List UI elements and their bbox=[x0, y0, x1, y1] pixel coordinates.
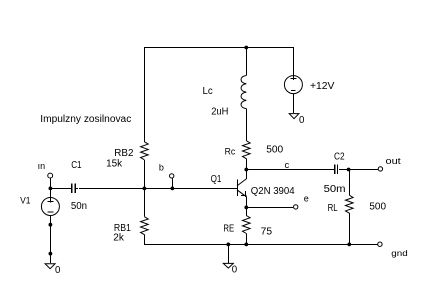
svg-text:e: e bbox=[304, 193, 309, 203]
svg-text:Q2N 3904: Q2N 3904 bbox=[251, 186, 295, 197]
svg-text:c: c bbox=[285, 160, 290, 171]
svg-text:500: 500 bbox=[266, 145, 284, 156]
svg-text:+12V: +12V bbox=[310, 81, 335, 92]
svg-text:0: 0 bbox=[55, 265, 61, 276]
svg-text:0: 0 bbox=[232, 265, 238, 276]
svg-text:Q1: Q1 bbox=[211, 174, 222, 185]
svg-text:Lc: Lc bbox=[203, 86, 213, 97]
svg-text:2k: 2k bbox=[113, 233, 124, 244]
svg-text:ın: ın bbox=[38, 161, 46, 171]
svg-text:RL: RL bbox=[328, 203, 338, 214]
svg-text:RE: RE bbox=[223, 223, 234, 234]
svg-text:C2: C2 bbox=[334, 152, 345, 163]
svg-text:75: 75 bbox=[261, 226, 272, 237]
svg-text:2uH: 2uH bbox=[211, 106, 228, 117]
svg-text:out: out bbox=[386, 156, 402, 166]
svg-text:Impulzny zosilnovac: Impulzny zosilnovac bbox=[40, 114, 131, 125]
svg-text:b: b bbox=[159, 162, 164, 172]
svg-text:500: 500 bbox=[369, 202, 386, 213]
svg-text:0: 0 bbox=[299, 115, 305, 126]
svg-text:C1: C1 bbox=[71, 160, 81, 171]
svg-text:50m: 50m bbox=[324, 184, 346, 195]
svg-text:15k: 15k bbox=[106, 158, 122, 169]
svg-text:gnd: gnd bbox=[391, 249, 407, 258]
svg-text:50n: 50n bbox=[71, 201, 87, 212]
svg-text:Rc: Rc bbox=[225, 147, 236, 158]
svg-text:V1: V1 bbox=[20, 195, 30, 206]
